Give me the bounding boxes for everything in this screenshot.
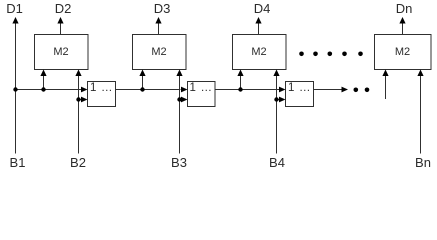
arrowhead M2 stage n left input	[382, 70, 388, 77]
wire B3 vertical line	[179, 75, 181, 154]
junction dot bus branch stage1	[41, 87, 45, 91]
wire D4 output	[258, 23, 260, 34]
wire branch to M2 stage3 left input	[240, 75, 242, 90]
svg-text:…: …	[299, 82, 311, 94]
wire bus segment 4 open ended	[314, 89, 343, 91]
box S1 carry cell	[88, 82, 116, 107]
box M2 stage 1	[35, 35, 89, 70]
arrowhead M2 stage3 right input (B4)	[273, 70, 279, 77]
junction dot bus x B1 line	[13, 87, 17, 91]
wire Dn output	[402, 23, 404, 34]
arrowhead lower stub into S2	[181, 97, 188, 103]
arrowhead D3 up	[155, 17, 161, 24]
svg-text:B4: B4	[269, 155, 285, 170]
wire B4 vertical line	[276, 75, 278, 154]
ellipsis dots upper row	[299, 52, 304, 57]
arrowhead D1 up	[12, 17, 18, 24]
svg-text:B3: B3	[171, 155, 187, 170]
arrowhead Dn up	[399, 17, 405, 24]
wire bus segment 1	[16, 89, 82, 91]
wire lower stub into box S2	[180, 99, 182, 101]
arrowhead D2 up	[57, 17, 63, 24]
wire bus segment 2	[116, 89, 181, 91]
svg-text:Bn: Bn	[415, 155, 431, 170]
arrowhead bus into S2	[181, 87, 188, 93]
svg-text:1: 1	[90, 82, 96, 94]
svg-text:D2: D2	[55, 1, 72, 16]
ellipsis dots bus row	[354, 88, 359, 93]
svg-text:…: …	[101, 82, 113, 94]
box M2 stage n	[375, 35, 432, 70]
arrowhead M2 stage1 right input (B2)	[75, 70, 81, 77]
wire stub to M2 stage n left input	[385, 75, 387, 99]
arrowhead M2 stage3 left input	[237, 70, 243, 77]
junction dot B2 lower stub	[76, 97, 80, 101]
junction dot bus branch stage2	[140, 87, 144, 91]
svg-text:…: …	[201, 82, 213, 94]
arrowhead bus into S3	[279, 87, 286, 93]
arrowhead lower stub into S3	[279, 97, 286, 103]
wire lower stub into box S1	[79, 99, 82, 101]
wire branch to M2 stage1 left input	[43, 75, 45, 90]
wire D3 output	[158, 23, 160, 34]
svg-text:B1: B1	[10, 155, 26, 170]
arrowhead lower stub into S1	[81, 97, 88, 103]
svg-text:1: 1	[288, 82, 294, 94]
arrowhead M2 stage2 right input (B3)	[176, 70, 182, 77]
svg-text:M2: M2	[53, 46, 68, 58]
arrowhead M2 stage2 left input	[139, 70, 145, 77]
box S2 carry cell	[188, 82, 216, 107]
junction dot bus branch stage3	[238, 87, 242, 91]
arrowhead M2 stage1 left input	[40, 70, 46, 77]
arrowhead bus into S1	[81, 87, 88, 93]
junction dot B3 lower stub	[177, 97, 181, 101]
svg-text:M2: M2	[251, 46, 266, 58]
svg-text:Dn: Dn	[396, 1, 413, 16]
arrowhead bus open end	[342, 87, 349, 93]
arrowhead D4 up	[255, 17, 261, 24]
svg-text:D3: D3	[154, 1, 171, 16]
wire D2 output	[60, 23, 62, 34]
wire Bn vertical line	[420, 75, 422, 154]
wire branch to M2 stage2 left input	[142, 75, 144, 90]
wire B2 vertical line	[78, 75, 80, 154]
wire B1/D1 vertical line	[15, 23, 17, 154]
svg-text:1: 1	[190, 82, 196, 94]
svg-text:D4: D4	[254, 1, 271, 16]
svg-text:B2: B2	[70, 155, 86, 170]
svg-text:M2: M2	[395, 46, 410, 58]
wire bus segment 3	[215, 89, 279, 91]
junction dot B4 lower stub	[274, 97, 278, 101]
arrowhead M2 stage n right input (Bn)	[417, 70, 423, 77]
box M2 stage 3	[233, 35, 287, 70]
box M2 stage 2	[133, 35, 187, 70]
box S3 carry cell	[286, 82, 314, 107]
svg-text:D1: D1	[6, 1, 23, 16]
wire lower stub into box S3	[277, 99, 280, 101]
svg-text:M2: M2	[151, 46, 166, 58]
